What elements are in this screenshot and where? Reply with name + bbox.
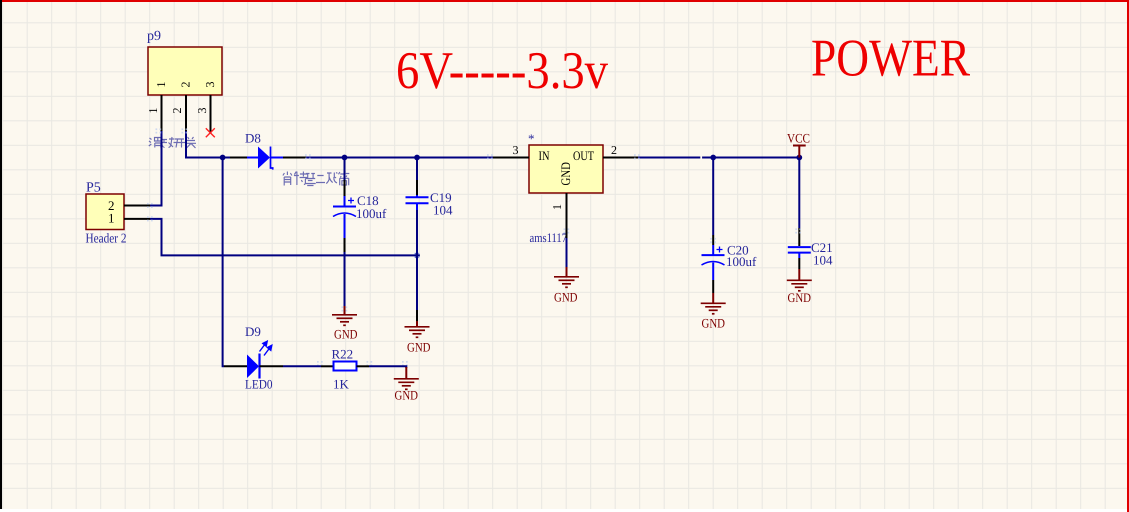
ground for C21 [787, 269, 812, 305]
capacitor C20 (polarized 100uf) [702, 158, 725, 294]
svg-text:1: 1 [146, 108, 160, 114]
wire LED to R22 [283, 365, 321, 367]
svg-text:3: 3 [195, 108, 209, 114]
p9 pin 1 [146, 82, 168, 132]
resistor R22 [321, 362, 369, 371]
svg-text:1: 1 [550, 204, 564, 210]
svg-text:Header 2: Header 2 [86, 231, 127, 246]
label 滑动开关 (slide switch) [149, 137, 196, 148]
svg-text:1K: 1K [333, 377, 350, 392]
svg-text:3: 3 [513, 143, 519, 157]
svg-text:P5: P5 [86, 181, 101, 196]
svg-text:p9: p9 [147, 29, 161, 44]
svg-text:2: 2 [170, 108, 184, 114]
svg-text:1: 1 [154, 82, 168, 88]
p9 pin 3 [195, 82, 217, 134]
svg-text:D8: D8 [245, 131, 261, 146]
svg-text:POWER: POWER [811, 30, 971, 88]
svg-text:GND: GND [407, 340, 431, 355]
svg-text:GND: GND [334, 327, 358, 342]
wire endpoint grip marks [147, 128, 801, 366]
svg-text:LED0: LED0 [245, 377, 273, 392]
wire regulator pin1 to ground [566, 238, 568, 267]
capacitor C21 (104) [788, 158, 811, 270]
ground for R22 [394, 367, 419, 403]
junction node at C20 [710, 155, 716, 161]
regulator pin 2 (OUT) [603, 143, 638, 158]
svg-text:2: 2 [611, 143, 617, 157]
connector P5 body [86, 194, 124, 230]
no-connect X on p9 pin 3 [206, 128, 215, 137]
junction node at VCC/C21 [796, 155, 802, 161]
svg-text:104: 104 [433, 203, 453, 218]
P5 pin 1 [108, 211, 150, 226]
svg-text:GND: GND [788, 290, 812, 305]
P5 pin 2 [108, 198, 150, 213]
junction node at C18 [342, 155, 348, 161]
svg-text:1: 1 [108, 211, 115, 226]
capacitor C18 (polarized 100uf) [333, 158, 356, 307]
svg-text:GND: GND [554, 290, 578, 305]
wire R22 to ground [369, 366, 406, 368]
svg-text:100uf: 100uf [356, 206, 387, 221]
svg-text:IN: IN [539, 148, 550, 163]
svg-text:2: 2 [179, 82, 193, 88]
svg-text:6V-----3.3v: 6V-----3.3v [396, 42, 608, 100]
wire D8 cathode to regulator IN [306, 157, 499, 159]
voltage regulator ams1117 body [529, 145, 603, 193]
svg-text:OUT: OUT [573, 148, 594, 163]
connector p9 body [148, 47, 222, 95]
wire p9.2 to D8 anode [186, 131, 230, 158]
power port VCC [787, 131, 810, 158]
svg-text:ams1117: ams1117 [530, 230, 568, 245]
svg-text:100uf: 100uf [726, 254, 757, 269]
junction node at p9.2 / LED branch [220, 155, 226, 161]
svg-text:GND: GND [395, 388, 419, 403]
ground for C19 [405, 321, 431, 355]
svg-text:*: * [528, 131, 535, 146]
p9 pin 2 [170, 82, 193, 132]
ground for regulator [554, 267, 579, 305]
wire branch down to LED D9 [223, 158, 224, 367]
junction node GND net at C19 [414, 253, 420, 259]
wire P5.2 to p9.1 [150, 131, 162, 206]
ground for C20 [701, 293, 726, 331]
wire regulator OUT to VCC [638, 157, 799, 159]
diode D8 (schottky) [230, 147, 306, 170]
svg-text:VCC: VCC [787, 131, 810, 146]
svg-text:3: 3 [203, 82, 217, 88]
LED D9 [224, 341, 283, 378]
ground for C18 [332, 306, 358, 342]
svg-text:R22: R22 [332, 347, 354, 362]
svg-text:GND: GND [558, 162, 573, 186]
label 肖特基二极管 (schottky diode) [283, 172, 349, 186]
svg-text:104: 104 [813, 253, 833, 268]
regulator pin 3 (IN) [493, 143, 529, 158]
regulator pin 1 (GND) [550, 193, 567, 238]
junction node at C19 [414, 155, 420, 161]
svg-text:D9: D9 [245, 324, 261, 339]
svg-text:GND: GND [702, 316, 726, 331]
capacitor C19 (104) [406, 158, 429, 322]
wire P5.1 down to GND net [150, 219, 417, 256]
